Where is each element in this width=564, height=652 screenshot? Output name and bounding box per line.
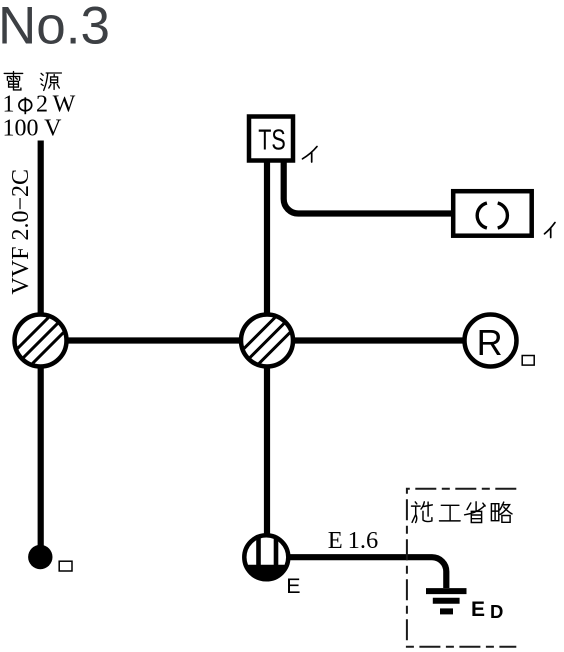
svg-text:100 V: 100 V (3, 116, 63, 142)
svg-text:W: W (53, 92, 76, 118)
svg-text:R: R (477, 322, 503, 363)
svg-text:No.3: No.3 (0, 0, 110, 56)
svg-text:E: E (471, 598, 485, 621)
svg-text:2: 2 (36, 92, 48, 118)
svg-text:E 1.6: E 1.6 (328, 527, 379, 554)
svg-text:1: 1 (3, 92, 15, 118)
svg-text:E: E (286, 574, 300, 598)
svg-text:TS: TS (258, 125, 286, 157)
svg-text:D: D (490, 601, 503, 622)
svg-text:VVF 2.0−2C: VVF 2.0−2C (8, 169, 34, 295)
